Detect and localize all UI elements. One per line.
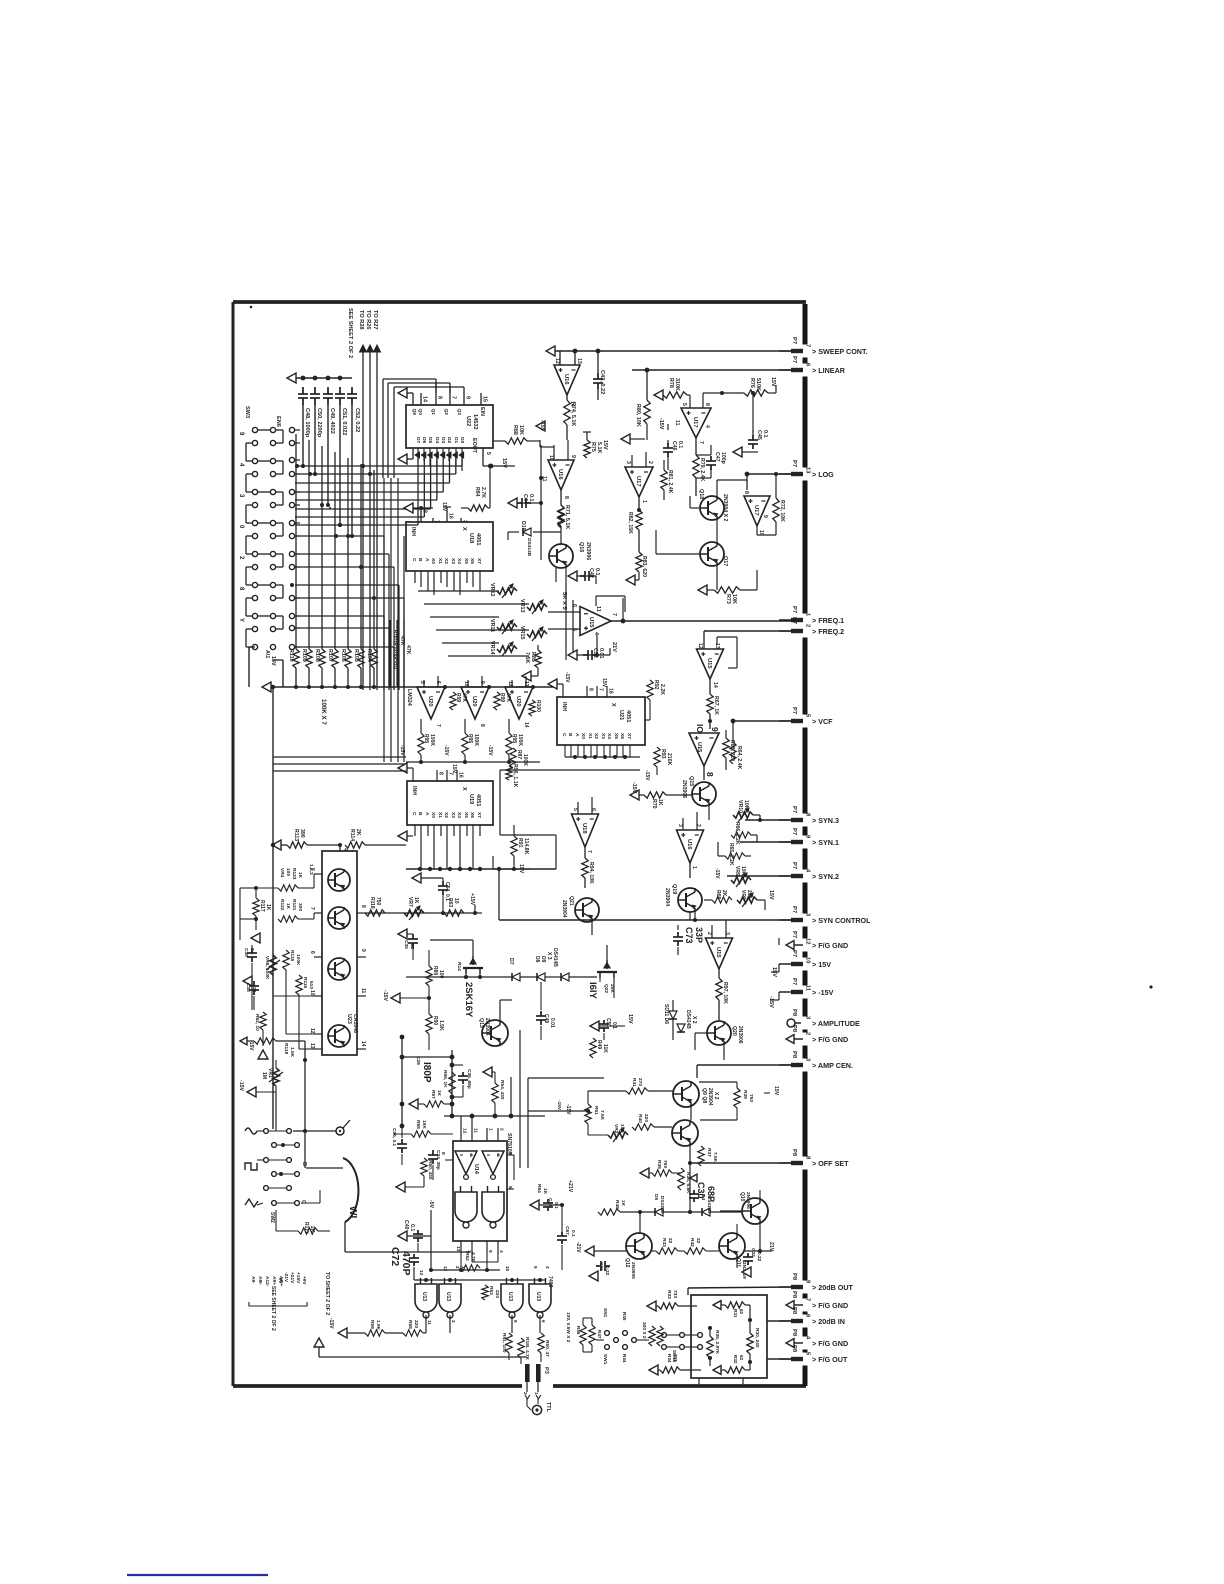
svg-text:VR2: VR2	[613, 1124, 619, 1134]
svg-text:C43, 0.22: C43, 0.22	[599, 370, 605, 394]
svg-text:1K: 1K	[657, 799, 663, 806]
svg-text:R70: R70	[651, 799, 657, 809]
svg-text:D1: D1	[453, 437, 459, 443]
svg-text:DS414B: DS414B	[685, 1010, 691, 1029]
svg-text:16: 16	[608, 688, 614, 694]
svg-text:8: 8	[422, 510, 428, 513]
svg-text:Q20: Q20	[731, 1026, 737, 1036]
svg-text:3: 3	[724, 932, 730, 935]
svg-text:-15V: -15V	[768, 996, 774, 1008]
svg-text:390: 390	[299, 829, 305, 838]
svg-text:P8: P8	[791, 1345, 797, 1353]
svg-text:> SYN.3: > SYN.3	[812, 816, 839, 825]
svg-text:15V: 15V	[270, 656, 276, 666]
svg-text:-5V: -5V	[428, 1200, 434, 1209]
svg-text:U16: U16	[557, 469, 563, 480]
svg-text:6: 6	[309, 951, 315, 954]
svg-text:1K: 1K	[620, 1200, 626, 1207]
svg-text:R43: R43	[661, 1238, 667, 1247]
svg-text:R31: R31	[733, 1309, 738, 1318]
svg-text:2N3904 X 2: 2N3904 X 2	[722, 494, 728, 522]
svg-text:R100: R100	[535, 700, 541, 712]
svg-text:R114: R114	[349, 829, 355, 841]
svg-text:P3: P3	[543, 1367, 549, 1374]
svg-text:Q1: Q1	[430, 409, 436, 416]
svg-text:> AMP CEN.: > AMP CEN.	[812, 1061, 853, 1070]
svg-text:9: 9	[487, 1250, 493, 1253]
svg-text:C67: C67	[564, 1226, 570, 1235]
svg-text:R87: R87	[516, 750, 522, 759]
svg-text:750: 750	[662, 1160, 668, 1168]
svg-text:D6: D6	[421, 437, 427, 443]
svg-text:U15: U15	[696, 742, 702, 752]
svg-text:C32: C32	[750, 1248, 756, 1257]
svg-text:0.1: 0.1	[249, 948, 255, 955]
svg-text:X0: X0	[580, 733, 586, 739]
svg-text:100p: 100p	[720, 452, 726, 464]
svg-text:Q19: Q19	[671, 884, 677, 894]
svg-text:4051: 4051	[475, 794, 481, 806]
svg-text:-15V: -15V	[564, 672, 570, 683]
svg-text:13: 13	[805, 467, 811, 474]
svg-text:R53: R53	[488, 1286, 494, 1295]
svg-text:R83, 620: R83, 620	[641, 556, 647, 577]
svg-text:270: 270	[637, 1078, 643, 1086]
svg-text:P8: P8	[791, 1025, 797, 1033]
svg-text:A: A	[424, 812, 430, 816]
svg-text:VR4: VR4	[279, 868, 285, 878]
svg-text:10: 10	[505, 1266, 510, 1272]
svg-text:13: 13	[523, 681, 529, 687]
svg-text:1: 1	[641, 500, 647, 503]
svg-text:100K: 100K	[429, 734, 435, 746]
svg-text:> -15V: > -15V	[812, 988, 834, 997]
svg-text:C31: C31	[598, 1262, 604, 1271]
svg-text:8: 8	[805, 1156, 811, 1160]
svg-text:10: 10	[805, 957, 811, 963]
svg-text:510: 510	[308, 981, 314, 989]
svg-text:U15: U15	[706, 658, 712, 669]
svg-text:-15V: -15V	[238, 1080, 244, 1091]
svg-text:C52, 0.22: C52, 0.22	[354, 408, 360, 432]
svg-text:R99: R99	[499, 693, 505, 702]
svg-text:U20: U20	[471, 696, 477, 707]
svg-text:R106: R106	[340, 649, 346, 662]
svg-text:4: 4	[545, 1266, 550, 1269]
svg-text:4: 4	[593, 632, 599, 635]
svg-text:Q17: Q17	[722, 556, 728, 566]
svg-text:R58: R58	[407, 1320, 413, 1329]
svg-text:B: B	[567, 733, 573, 737]
svg-text:200: 200	[746, 890, 752, 899]
svg-text:7: 7	[434, 520, 440, 523]
svg-text:R60, 430: R60, 430	[427, 1160, 433, 1180]
svg-text:U13: U13	[535, 1292, 541, 1301]
svg-text:DS414B: DS414B	[552, 948, 558, 967]
svg-text:9: 9	[805, 1280, 811, 1284]
svg-text:R123: R123	[291, 868, 297, 880]
svg-text:3: 3	[805, 1016, 811, 1020]
svg-text:C41: C41	[547, 1198, 553, 1207]
svg-text:X7: X7	[476, 558, 482, 564]
svg-text:-15V: -15V	[328, 1318, 334, 1329]
svg-text:D5: D5	[427, 437, 433, 443]
svg-text:15K: 15K	[421, 1120, 427, 1129]
svg-text:R109: R109	[301, 649, 307, 662]
svg-text:4: 4	[238, 463, 244, 467]
svg-text:9: 9	[479, 681, 485, 684]
svg-text:16: 16	[458, 772, 464, 778]
svg-text:U17: U17	[692, 417, 698, 428]
svg-text:R57: R57	[430, 1090, 436, 1099]
svg-text:INH: INH	[410, 527, 416, 536]
svg-text:R93: R93	[660, 749, 666, 759]
svg-text:R108: R108	[314, 649, 320, 662]
svg-text:62: 62	[739, 1355, 744, 1361]
svg-text:INH: INH	[411, 786, 417, 795]
svg-text:2N3904: 2N3904	[664, 888, 670, 906]
svg-text:5: 5	[681, 403, 687, 406]
svg-text:X4: X4	[606, 733, 612, 739]
svg-text:R30, 240: R30, 240	[754, 1328, 760, 1348]
svg-text:D9: D9	[540, 956, 546, 963]
svg-text:P7: P7	[791, 931, 797, 938]
svg-text:X1: X1	[437, 812, 443, 818]
svg-text:12: 12	[554, 358, 560, 364]
svg-text:B: B	[417, 812, 423, 816]
svg-text:13: 13	[309, 1043, 315, 1049]
svg-text:0.1: 0.1	[553, 1202, 559, 1209]
svg-text:100, 0.5W X 2: 100, 0.5W X 2	[565, 1312, 571, 1343]
svg-text:U19: U19	[468, 794, 474, 804]
svg-text:1K: 1K	[436, 1090, 442, 1097]
svg-text:15: 15	[482, 396, 488, 402]
svg-text:2: 2	[695, 824, 701, 827]
svg-text:X0: X0	[430, 558, 436, 564]
svg-text:R35, 2.97K: R35, 2.97K	[714, 1330, 720, 1355]
svg-text:7: 7	[611, 613, 617, 616]
svg-text:R82, 15K: R82, 15K	[627, 512, 633, 534]
svg-text:3: 3	[677, 824, 683, 827]
svg-text:D0: D0	[459, 437, 465, 443]
svg-text:9: 9	[762, 515, 768, 518]
svg-text:Q2: Q2	[443, 409, 449, 416]
svg-text:8: 8	[705, 772, 715, 777]
svg-text:9: 9	[238, 432, 244, 436]
svg-text:SW1: SW1	[602, 1354, 608, 1365]
svg-text:B: B	[417, 558, 423, 562]
svg-text:IO: IO	[695, 724, 705, 733]
svg-text:C46: C46	[671, 441, 677, 451]
svg-text:10K: 10K	[740, 866, 746, 876]
svg-text:P7: P7	[791, 806, 797, 813]
svg-text:5: 5	[419, 681, 425, 684]
svg-text:EOUT: EOUT	[471, 438, 477, 454]
svg-text:R64, 2.4K: R64, 2.4K	[736, 746, 742, 770]
svg-text:9: 9	[533, 1266, 538, 1269]
svg-text:C39: C39	[243, 948, 249, 957]
svg-text:15V: 15V	[768, 890, 774, 900]
svg-text:100: 100	[285, 868, 291, 876]
svg-text:-15V: -15V	[714, 868, 720, 879]
svg-text:100K X 7: 100K X 7	[320, 699, 327, 725]
svg-text:X5: X5	[463, 812, 469, 818]
svg-text:Q9 Q8: Q9 Q8	[701, 1088, 707, 1103]
svg-text:1K: 1K	[265, 904, 271, 911]
svg-text:220: 220	[494, 1290, 500, 1298]
svg-text:9: 9	[805, 835, 811, 839]
svg-text:X: X	[610, 703, 616, 707]
svg-text:1.5K: 1.5K	[438, 1020, 444, 1031]
svg-text:4: 4	[805, 1336, 811, 1340]
svg-text:2: 2	[499, 1128, 505, 1131]
svg-text:C42: C42	[588, 568, 594, 578]
svg-text:X: X	[461, 527, 467, 531]
svg-text:R74, 5.1K: R74, 5.1K	[570, 402, 576, 426]
svg-text:X1: X1	[587, 733, 593, 739]
svg-text:2SK16Y: 2SK16Y	[463, 982, 474, 1018]
svg-text:22: 22	[695, 1238, 701, 1244]
svg-text:R62, 10: R62, 10	[254, 1014, 260, 1031]
svg-text:U15: U15	[588, 617, 594, 628]
svg-text:R88, 220: R88, 220	[729, 740, 735, 761]
svg-text:P7: P7	[791, 978, 797, 985]
svg-text:11: 11	[805, 985, 811, 992]
svg-text:SEE SHEET 2 OF 2: SEE SHEET 2 OF 2	[270, 1286, 276, 1331]
svg-text:C56, 0.1: C56, 0.1	[391, 1128, 397, 1146]
svg-text:R14: R14	[456, 962, 462, 971]
svg-text:14: 14	[422, 396, 428, 402]
svg-text:510K: 510K	[755, 378, 761, 391]
svg-text:8: 8	[238, 587, 244, 591]
svg-text:220: 220	[413, 1320, 419, 1328]
svg-text:R116: R116	[302, 977, 308, 989]
svg-text:R18L 4.7K: R18L 4.7K	[524, 1337, 530, 1361]
svg-text:6: 6	[571, 604, 577, 607]
svg-text:R75: R75	[590, 442, 596, 452]
svg-text:8: 8	[743, 491, 749, 494]
svg-text:1K: 1K	[542, 1188, 548, 1195]
svg-text:R122: R122	[279, 899, 285, 911]
svg-text:Q11: Q11	[735, 1258, 741, 1267]
svg-text:R48: R48	[614, 1200, 620, 1209]
svg-text:X 2: X 2	[713, 1092, 719, 1100]
svg-text:1K: 1K	[285, 903, 291, 910]
svg-text:P7: P7	[791, 862, 797, 869]
svg-text:I80P: I80P	[421, 1062, 432, 1083]
svg-text:14: 14	[523, 722, 529, 728]
svg-text:47K: 47K	[505, 693, 511, 703]
svg-text:U13: U13	[507, 1292, 513, 1301]
svg-text:A9+: A9+	[271, 1276, 277, 1285]
svg-text:4: 4	[498, 1250, 504, 1253]
svg-text:C: C	[561, 733, 567, 737]
svg-text:2N3904: 2N3904	[561, 900, 567, 918]
svg-text:> F/G OUT: > F/G OUT	[812, 1355, 848, 1364]
svg-text:220: 220	[643, 1114, 649, 1122]
svg-text:U18: U18	[468, 533, 474, 543]
svg-text:> AMPLITUDE: > AMPLITUDE	[812, 1019, 860, 1028]
svg-text:Q18: Q18	[698, 489, 704, 499]
svg-text:WI: WI	[347, 1206, 358, 1218]
svg-text:D7: D7	[508, 958, 514, 965]
svg-text:2: 2	[805, 1032, 811, 1035]
svg-text:C: C	[411, 812, 417, 816]
svg-text:VR10: VR10	[737, 800, 743, 813]
svg-text:300: 300	[297, 903, 303, 911]
svg-text:C73: C73	[684, 927, 694, 944]
svg-text:15V: 15V	[602, 440, 608, 450]
svg-text:-21V: -21V	[575, 1242, 581, 1253]
svg-text:8: 8	[438, 772, 444, 775]
svg-text:7: 7	[309, 907, 315, 910]
svg-text:TO R28: TO R28	[358, 310, 364, 329]
svg-text:X3: X3	[450, 812, 456, 818]
svg-text:SW2: SW2	[269, 1212, 275, 1223]
svg-text:47K: 47K	[461, 693, 467, 703]
svg-text:D10: D10	[520, 521, 526, 531]
svg-text:VR9: VR9	[734, 866, 740, 876]
svg-text:R97, 10K: R97, 10K	[722, 982, 728, 1004]
svg-text:8: 8	[563, 496, 569, 499]
svg-text:+9V: +9V	[301, 1276, 307, 1285]
svg-text:VR8: VR8	[740, 890, 746, 900]
svg-text:I6IY: I6IY	[587, 982, 598, 1000]
svg-text:4: 4	[805, 869, 811, 873]
svg-text:8: 8	[805, 813, 811, 817]
svg-text:C49: C49	[543, 1014, 549, 1023]
svg-text:D4: D4	[434, 437, 440, 443]
svg-text:X6: X6	[469, 812, 475, 818]
svg-text:3: 3	[451, 1320, 456, 1323]
svg-text:2.7K: 2.7K	[480, 487, 486, 498]
svg-text:11: 11	[427, 1320, 432, 1325]
svg-text:R110: R110	[288, 649, 294, 662]
svg-text:7: 7	[586, 850, 592, 853]
svg-text:VR13: VR13	[519, 599, 525, 613]
svg-text:22: 22	[409, 944, 415, 950]
svg-text:4: 4	[342, 848, 348, 851]
svg-text:R42: R42	[689, 1238, 695, 1247]
svg-text:1M: 1M	[261, 1072, 267, 1079]
svg-text:B: B	[301, 1162, 307, 1166]
svg-text:9: 9	[360, 949, 366, 952]
svg-text:114.8K: 114.8K	[523, 838, 529, 855]
svg-text:R111: R111	[303, 1222, 309, 1234]
svg-text:0.01: 0.01	[598, 648, 604, 659]
svg-text:16: 16	[448, 513, 454, 519]
svg-text:1.5K: 1.5K	[289, 1047, 295, 1058]
svg-text:R32: R32	[733, 1355, 738, 1364]
svg-text:D8: D8	[534, 956, 540, 963]
svg-text:+21V: +21V	[567, 1180, 573, 1193]
svg-text:C44: C44	[522, 494, 528, 504]
svg-text:0.1: 0.1	[762, 430, 768, 438]
svg-text:2: 2	[805, 624, 811, 627]
svg-text:X2: X2	[593, 733, 599, 739]
svg-text:P7: P7	[791, 707, 797, 714]
svg-text:470P: 470P	[400, 1251, 412, 1276]
svg-text:0.01: 0.01	[549, 1018, 555, 1028]
svg-text:4: 4	[704, 425, 710, 428]
svg-text:11: 11	[595, 606, 601, 612]
svg-text:11: 11	[360, 988, 366, 994]
svg-text:R59: R59	[369, 1320, 375, 1329]
svg-text:12: 12	[507, 681, 513, 687]
svg-text:VR6, 100K: VR6, 100K	[264, 956, 270, 980]
svg-text:R84: R84	[474, 487, 480, 497]
svg-text:+15V: +15V	[295, 1272, 301, 1284]
svg-text:15V: 15V	[451, 764, 457, 774]
svg-text:12: 12	[697, 643, 703, 649]
svg-text:C49, 4022: C49, 4022	[329, 408, 335, 434]
svg-text:8: 8	[513, 1320, 518, 1323]
svg-text:C40: C40	[403, 1220, 409, 1230]
svg-text:-15V: -15V	[487, 745, 493, 756]
svg-text:X4: X4	[456, 812, 462, 818]
svg-text:2K: 2K	[721, 890, 727, 897]
svg-text:22: 22	[667, 1238, 673, 1244]
svg-text:A\1: A\1	[264, 650, 270, 658]
svg-text:X 2: X 2	[691, 1016, 697, 1024]
svg-text:DS414B: DS414B	[526, 538, 532, 557]
svg-text:VR7: VR7	[407, 897, 413, 907]
svg-text:2.2K: 2.2K	[659, 684, 665, 695]
svg-text:11: 11	[674, 420, 680, 426]
svg-text:U17: U17	[635, 476, 641, 487]
svg-text:7.5K: 7.5K	[712, 1152, 718, 1163]
svg-text:> SYN.2: > SYN.2	[812, 872, 839, 881]
svg-text:R119: R119	[283, 1043, 289, 1055]
svg-text:> F/G GND: > F/G GND	[812, 1301, 848, 1310]
svg-text:5: 5	[572, 808, 578, 811]
svg-text:2: 2	[238, 556, 244, 560]
svg-text:10: 10	[453, 898, 459, 904]
svg-text:P8: P8	[791, 1273, 797, 1281]
svg-text:15V: 15V	[601, 678, 607, 688]
svg-text:6: 6	[805, 363, 811, 367]
svg-text:DS414B: DS414B	[660, 1196, 665, 1214]
svg-text:0.1: 0.1	[528, 494, 534, 502]
svg-text:0.22: 0.22	[604, 1266, 610, 1276]
svg-text:P7: P7	[791, 337, 797, 344]
svg-text:C48, 1000p: C48, 1000p	[304, 408, 310, 438]
svg-text:8: 8	[479, 724, 485, 727]
svg-text:6: 6	[435, 681, 441, 684]
svg-text:0.22: 0.22	[756, 1252, 762, 1262]
svg-text:2N3906: 2N3906	[585, 542, 591, 560]
svg-text:-15V: -15V	[658, 418, 664, 430]
svg-text:5: 5	[805, 1352, 811, 1356]
svg-text:X: X	[461, 787, 467, 791]
svg-text:8: 8	[440, 1152, 446, 1155]
svg-text:SN1: SN1	[602, 1308, 608, 1318]
svg-text:2: 2	[522, 1392, 528, 1395]
svg-text:Q22: Q22	[603, 984, 609, 993]
svg-text:100: 100	[438, 970, 444, 979]
svg-text:X6: X6	[619, 733, 625, 739]
svg-text:> LINEAR: > LINEAR	[812, 366, 846, 375]
svg-text:R121: R121	[291, 899, 297, 911]
svg-text:2K: 2K	[355, 829, 361, 836]
svg-text:R115: R115	[289, 950, 295, 962]
svg-text:9: 9	[465, 396, 471, 399]
svg-text:R56, 1K: R56, 1K	[442, 1070, 448, 1088]
svg-text:C72: C72	[389, 1247, 401, 1266]
svg-text:> 20dB OUT: > 20dB OUT	[812, 1283, 854, 1292]
svg-text:SEE SHEET 2 OF 2: SEE SHEET 2 OF 2	[347, 308, 353, 358]
svg-text:R90: R90	[432, 1016, 438, 1025]
